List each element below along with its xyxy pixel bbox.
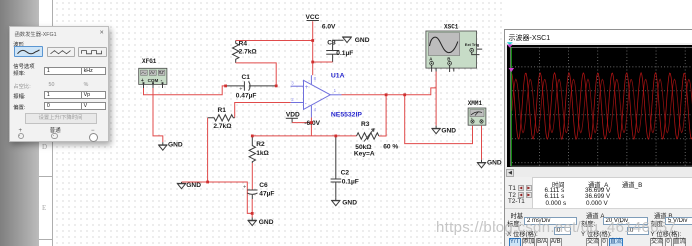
svg-text:0.47µF: 0.47µF: [236, 92, 257, 99]
multimeter XMM1 icon: [468, 100, 486, 125]
potentiometer R3: [354, 121, 398, 158]
VDD power symbol: [286, 112, 300, 123]
capacitor C6: [243, 182, 274, 199]
capacitor C1: [226, 74, 277, 99]
svg-text:XFG1: XFG1: [142, 58, 157, 65]
svg-text:2.7kΩ: 2.7kΩ: [213, 123, 232, 130]
svg-text:GND: GND: [487, 159, 502, 166]
svg-text:R2: R2: [256, 141, 265, 148]
wire R3 right up to output: [379, 95, 386, 136]
wire C6 bottom to ground: [251, 199, 253, 218]
wire op-amp output: [342, 88, 437, 95]
svg-text:47µF: 47µF: [259, 191, 274, 198]
wire VCC down to op-amp pin 8: [312, 21, 314, 75]
svg-text:0.1µF: 0.1µF: [336, 50, 353, 57]
function generator dialog: [9, 26, 109, 142]
watermark: [436, 219, 676, 236]
ground at left row: [177, 182, 201, 189]
capacitor C3: [326, 40, 353, 62]
svg-text:Ext Trig: Ext Trig: [465, 42, 480, 47]
svg-text:C2: C2: [341, 169, 350, 176]
svg-text:+: +: [471, 117, 473, 121]
svg-text:4: 4: [314, 107, 317, 112]
svg-text:60 %: 60 %: [383, 144, 398, 151]
wire R4 bottom to C1 output node: [236, 63, 277, 86]
wire C3 to VCC rail: [313, 61, 333, 63]
wire output to XMM1 plus: [405, 95, 473, 144]
svg-text:0.1µF: 0.1µF: [342, 179, 359, 186]
svg-text:GND: GND: [441, 127, 456, 134]
svg-text:B: B: [447, 57, 450, 62]
svg-text:1kΩ: 1kΩ: [256, 150, 269, 157]
VCC power symbol: [306, 14, 337, 31]
svg-text:C6: C6: [259, 182, 268, 189]
svg-text:GND: GND: [186, 182, 201, 189]
svg-text:GND: GND: [342, 200, 357, 207]
wire scope A to ground: [435, 72, 437, 126]
wire XFG1 plus to C1: [144, 86, 226, 95]
ground for C3: [342, 37, 369, 44]
svg-text:NE5532IP: NE5532IP: [331, 112, 362, 119]
ground below scope A wire: [432, 126, 457, 135]
wire VDD to op-amp pin 4 and down: [292, 118, 311, 136]
svg-text:GND: GND: [355, 37, 370, 44]
svg-text:U1A: U1A: [331, 72, 345, 79]
svg-text:GND: GND: [168, 142, 183, 149]
ground below C2: [331, 198, 357, 207]
wire ground row to C6 bottom: [182, 182, 253, 213]
wire XMM1 minus to ground: [481, 126, 483, 160]
wire R4 top to VCC rail: [236, 40, 313, 42]
svg-text:VCC: VCC: [306, 14, 320, 21]
resistor R2: [249, 136, 269, 163]
ground for XFG1 COM: [158, 142, 183, 151]
wire R1 left down to ground row: [207, 118, 209, 182]
svg-text:-: -: [305, 101, 307, 107]
resistor R1: [208, 107, 235, 130]
svg-text:VDD: VDD: [286, 112, 300, 119]
ground below C6: [248, 218, 274, 227]
oscilloscope XSC1 icon: [426, 23, 482, 72]
wire XFG1 COM to ground: [153, 88, 163, 142]
svg-text:Key=A: Key=A: [354, 151, 375, 158]
function generator XFG1 icon: [139, 58, 167, 88]
op-amp U1A: [291, 72, 363, 118]
oscilloscope window: [504, 29, 692, 246]
svg-text:2: 2: [291, 97, 294, 102]
svg-text:3: 3: [291, 81, 294, 86]
svg-text:GND: GND: [259, 219, 274, 226]
svg-text:2.7kΩ: 2.7kΩ: [239, 49, 258, 56]
wire negative rail row to R2 and R3: [252, 135, 356, 137]
svg-text:+: +: [305, 85, 309, 91]
wire op-amp pin2 to R1: [235, 103, 291, 118]
capacitor C2: [331, 136, 359, 198]
svg-text:8: 8: [314, 76, 317, 81]
junction node dots: [206, 39, 406, 215]
svg-text:XMM1: XMM1: [468, 100, 483, 107]
wire R2 bottom to C6: [251, 163, 253, 190]
svg-text:R1: R1: [218, 107, 227, 114]
svg-text:C1: C1: [242, 74, 251, 81]
svg-text:XSC1: XSC1: [444, 23, 459, 30]
svg-text:1: 1: [334, 88, 337, 93]
ground below XMM1: [477, 159, 502, 168]
svg-text:+: +: [243, 185, 246, 191]
resistor R4: [233, 40, 258, 63]
svg-text:R3: R3: [361, 121, 370, 128]
svg-text:6.0V: 6.0V: [322, 23, 336, 30]
svg-text:R4: R4: [239, 40, 248, 47]
